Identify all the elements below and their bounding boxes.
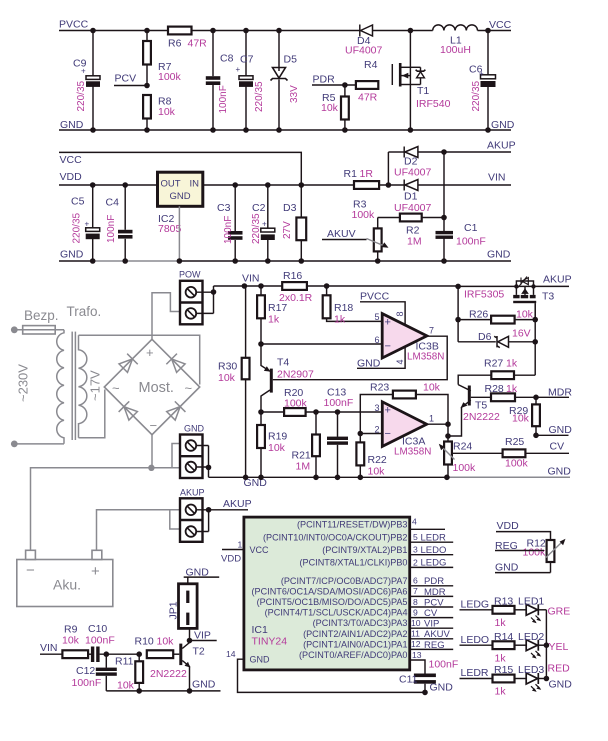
resistor R21 1M — [292, 409, 320, 480]
svg-text:LEDG: LEDG — [421, 558, 447, 569]
svg-text:11: 11 — [411, 629, 420, 639]
svg-text:GND: GND — [170, 191, 191, 202]
svg-text:(PCINT2/AIN1/ADC2)PA2: (PCINT2/AIN1/ADC2)PA2 — [303, 629, 407, 639]
svg-text:VIP: VIP — [424, 619, 439, 630]
svg-text:REG: REG — [424, 640, 445, 651]
svg-text:100k: 100k — [284, 398, 308, 410]
svg-text:C12: C12 — [76, 665, 95, 677]
svg-text:100nF: 100nF — [223, 216, 234, 244]
pin 6 PDR — [410, 585, 454, 587]
svg-text:GND: GND — [250, 655, 271, 665]
node REG label + wire — [495, 540, 544, 552]
svg-text:100k: 100k — [453, 462, 477, 474]
svg-text:CV: CV — [550, 440, 565, 452]
transistor T3 IRF5305 — [464, 277, 554, 320]
svg-text:−: − — [385, 341, 391, 353]
diode D2 UF4007 (cathode left) — [394, 147, 432, 179]
capacitor C1 100nF — [436, 218, 486, 264]
wire bridge plus to POW connector — [152, 293, 181, 340]
capacitor C6 220/35 — [469, 28, 496, 133]
svg-text:1R: 1R — [360, 168, 374, 180]
transistor T1 IRF540 — [392, 28, 450, 133]
svg-text:100nF: 100nF — [456, 236, 486, 248]
resistor R5 10k — [321, 82, 349, 133]
svg-text:7: 7 — [413, 586, 418, 596]
svg-text:5: 5 — [375, 312, 380, 322]
wire L1 to VCC end — [478, 30, 512, 32]
svg-text:MDR: MDR — [424, 587, 446, 598]
svg-text:2N2222: 2N2222 — [463, 411, 500, 423]
svg-text:(PCINT1/AIN0/ADC1)PA1: (PCINT1/AIN0/ADC1)PA1 — [303, 639, 407, 649]
bridge diode lower-left — [119, 401, 139, 421]
resistor R30 10k — [218, 286, 250, 480]
svg-text:1k: 1k — [506, 383, 518, 395]
op-amp IC3B LM358N — [375, 311, 445, 364]
svg-text:LM358N: LM358N — [407, 352, 444, 363]
svg-text:+: + — [146, 345, 154, 360]
svg-text:~230V: ~230V — [16, 364, 31, 402]
IC1 pin names (inside right) — [252, 520, 408, 661]
svg-text:GND: GND — [184, 424, 205, 434]
svg-text:GND: GND — [549, 424, 573, 436]
svg-text:1M: 1M — [296, 461, 311, 473]
svg-text:R19: R19 — [268, 431, 287, 443]
svg-text:MDR: MDR — [548, 387, 572, 399]
svg-text:33V: 33V — [289, 85, 300, 103]
svg-text:−: − — [150, 418, 158, 433]
svg-text:AKUP: AKUP — [180, 488, 205, 498]
svg-text:GND: GND — [192, 679, 216, 691]
trimmer R12 100k — [523, 538, 566, 573]
svg-text:220/35: 220/35 — [471, 80, 482, 111]
svg-text:IC1: IC1 — [252, 624, 269, 636]
capacitor C12 100nF — [72, 654, 117, 691]
svg-text:2N2222: 2N2222 — [150, 668, 187, 680]
svg-text:R1: R1 — [344, 168, 358, 180]
svg-text:Most.: Most. — [139, 380, 174, 396]
svg-text:1: 1 — [429, 414, 434, 424]
resistor R17 1k — [257, 286, 287, 344]
wire D4 to T1 node — [373, 30, 433, 32]
svg-text:LEDR: LEDR — [461, 667, 489, 679]
capacitor C8 100nF — [206, 28, 234, 133]
svg-text:GND: GND — [495, 562, 519, 574]
svg-text:5: 5 — [413, 532, 418, 542]
resistor R10 10k — [135, 636, 180, 659]
diode D1 UF4007 (cathode left) — [394, 180, 432, 215]
wire AKUP-dot vertical to R2/C1 line — [441, 149, 447, 217]
capacitor C2 220/35 — [251, 182, 275, 264]
svg-text:R23: R23 — [370, 382, 389, 394]
pin 9 CV — [410, 617, 454, 619]
svg-text:−: − — [26, 562, 35, 579]
transistor T4 2N2907 — [261, 344, 314, 412]
fuse Bezp. — [14, 308, 64, 334]
svg-text:T2: T2 — [193, 646, 205, 658]
fuse terminal top — [11, 326, 18, 333]
svg-text:10k: 10k — [512, 413, 530, 425]
svg-text:R26: R26 — [469, 309, 488, 321]
zener D6 16V (cathode left) — [458, 303, 538, 375]
svg-text:10k: 10k — [321, 102, 339, 114]
svg-text:+: + — [385, 317, 391, 329]
wire IC3A output pin1 — [427, 423, 448, 425]
svg-text:+: + — [91, 563, 100, 580]
svg-text:Trafo.: Trafo. — [67, 304, 102, 319]
svg-text:UF4007: UF4007 — [345, 45, 383, 57]
pin 8 PCV — [410, 606, 454, 608]
junction gray minus node — [148, 465, 154, 471]
connector AKUP — [180, 488, 252, 542]
wire battery plus to AKUP connector — [97, 510, 181, 551]
svg-text:~17V: ~17V — [88, 370, 103, 401]
svg-text:−: − — [385, 428, 391, 440]
transistor T2 2N2222 — [150, 641, 205, 694]
resistor R16 2x0.1R — [258, 270, 329, 304]
wire IC2 GND stub (gray) — [178, 206, 180, 261]
svg-text:GND: GND — [487, 249, 511, 261]
diode D4 UF4007 (in rail, cathode left) — [345, 25, 383, 57]
wire pin2 line — [360, 433, 382, 435]
svg-text:27V: 27V — [282, 221, 293, 239]
svg-text:10k: 10k — [157, 636, 175, 648]
svg-text:220/35: 220/35 — [251, 213, 262, 244]
svg-text:6: 6 — [413, 576, 418, 586]
svg-text:10k: 10k — [516, 309, 534, 321]
svg-text:~: ~ — [185, 381, 193, 396]
svg-text:10k: 10k — [218, 372, 236, 384]
svg-text:POW: POW — [179, 270, 201, 280]
svg-text:GRE: GRE — [548, 606, 571, 618]
svg-text:R15: R15 — [494, 664, 513, 676]
svg-text:47R: 47R — [188, 38, 208, 50]
pin 2 LEDG — [410, 566, 454, 568]
resistor R22 10k — [356, 431, 387, 480]
resistor R20 100k — [258, 387, 382, 416]
svg-text:(PCINT7/ICP/OC0B/ADC7)PA7: (PCINT7/ICP/OC0B/ADC7)PA7 — [281, 576, 408, 586]
wire VIN line (right of IC2) — [203, 184, 354, 186]
pin 11 AKUV — [410, 638, 454, 640]
svg-text:+: + — [85, 220, 90, 229]
trimmer R24 100k — [439, 424, 476, 480]
svg-text:VDD: VDD — [221, 554, 241, 565]
svg-text:10k: 10k — [117, 680, 135, 692]
svg-text:R18: R18 — [334, 302, 353, 314]
svg-text:R14: R14 — [494, 631, 513, 643]
bridge diode upper-left — [118, 354, 138, 374]
resistor R8 10k — [143, 95, 176, 133]
svg-text:9: 9 — [413, 607, 418, 617]
svg-text:C2: C2 — [252, 202, 266, 214]
resistor R2 1M — [378, 214, 447, 248]
wire pin6 line — [261, 343, 382, 345]
bridge rectifier Most. diamond — [104, 339, 199, 434]
resistor R7 100k — [143, 28, 181, 86]
resistor R19 10k — [257, 412, 287, 480]
svg-text:100nF: 100nF — [85, 635, 115, 647]
wire GND rail left — [59, 260, 93, 262]
svg-text:T1: T1 — [417, 85, 429, 97]
svg-text:VCC: VCC — [250, 545, 270, 555]
svg-text:VIN: VIN — [40, 642, 58, 654]
svg-text:GND: GND — [491, 119, 515, 131]
capacitor C3 100nF — [217, 182, 243, 264]
svg-text:CV: CV — [424, 608, 438, 619]
svg-text:D3: D3 — [283, 202, 297, 214]
svg-text:100nF: 100nF — [429, 659, 459, 671]
svg-text:+: + — [81, 67, 86, 76]
svg-text:TINY24: TINY24 — [252, 636, 288, 648]
node VIN label + wire — [40, 642, 62, 654]
wire VIN to T3 — [458, 285, 569, 287]
transistor T5 2N2222 — [445, 385, 500, 439]
svg-text:LM358N: LM358N — [394, 447, 431, 458]
transformer core — [72, 332, 75, 440]
svg-text:RED: RED — [548, 663, 571, 675]
connector GND — [180, 424, 211, 479]
svg-text:C3: C3 — [217, 202, 231, 214]
wire section3 GND rail — [209, 476, 449, 478]
LED row 2 : LEDO / R14 / LED2 YEL — [460, 631, 569, 665]
svg-text:100nF: 100nF — [72, 677, 102, 689]
resistor R1 1R — [344, 168, 392, 189]
wire bottom GND line — [106, 679, 220, 691]
svg-text:R6: R6 — [168, 38, 182, 50]
svg-text:3: 3 — [413, 545, 418, 555]
capacitor C7 220/35 — [236, 28, 266, 133]
svg-text:D6: D6 — [478, 331, 492, 343]
svg-text:IRF540: IRF540 — [416, 98, 451, 110]
wire battery minus to GND node — [31, 444, 181, 551]
svg-text:D1: D1 — [404, 191, 418, 203]
pin 13 PA0 — [410, 660, 425, 674]
IC1 right pin stubs + numbers + nets — [410, 517, 454, 674]
svg-text:R17: R17 — [268, 302, 287, 314]
wire VCC top line — [59, 152, 301, 185]
wire AKUP line — [388, 151, 404, 153]
svg-text:C5: C5 — [71, 196, 85, 208]
resistor R23 10k (feedback) — [360, 382, 448, 434]
wire GND rail right — [179, 260, 511, 262]
svg-text:1k: 1k — [506, 358, 518, 370]
svg-text:T4: T4 — [277, 357, 289, 369]
node PVCC label + wire to pin 8 — [360, 291, 405, 326]
pin 3 LEDO — [410, 554, 454, 556]
svg-text:GND: GND — [549, 679, 573, 691]
node AKUV label + wire — [322, 228, 367, 240]
svg-text:13: 13 — [412, 650, 422, 660]
svg-text:(PCINT0/AREF/ADC0)PA0: (PCINT0/AREF/ADC0)PA0 — [299, 650, 407, 660]
svg-text:OUT: OUT — [161, 179, 181, 190]
svg-text:LEDR: LEDR — [421, 532, 446, 543]
battery Aku. — [17, 550, 113, 606]
fuse terminal bottom — [11, 441, 18, 448]
svg-text:AKUP: AKUP — [223, 498, 252, 510]
svg-text:(PCINT6/OC1A/SDA/MOSI/ADC6)PA6: (PCINT6/OC1A/SDA/MOSI/ADC6)PA6 — [252, 586, 408, 596]
svg-text:100nF: 100nF — [324, 397, 354, 409]
svg-text:(PCINT8/XTAL1/CLKI)PB0: (PCINT8/XTAL1/CLKI)PB0 — [300, 558, 408, 568]
svg-text:Bezp.: Bezp. — [24, 308, 59, 323]
svg-text:VIN: VIN — [242, 273, 260, 285]
svg-text:PVCC: PVCC — [59, 19, 89, 31]
svg-text:GND: GND — [60, 119, 84, 131]
svg-text:UF4007: UF4007 — [394, 202, 432, 214]
svg-text:+: + — [385, 405, 391, 417]
wire PVCC rail right part — [192, 30, 360, 32]
pin 5 LEDR — [410, 541, 454, 543]
svg-text:100k: 100k — [505, 458, 529, 470]
resistor R6 47R (in PVCC rail) — [168, 27, 207, 50]
svg-text:PDR: PDR — [313, 74, 336, 86]
wire PVCC rail — [59, 30, 168, 32]
node VDD label + wire — [496, 520, 551, 540]
svg-text:LED1: LED1 — [518, 596, 544, 608]
jumper JP1 — [168, 577, 198, 640]
LED row 3 : LEDR / R15 / LED3 RED — [460, 663, 573, 698]
svg-text:(PCINT5/OC1B/MISO/DO/ADC5)PA5: (PCINT5/OC1B/MISO/DO/ADC5)PA5 — [257, 597, 408, 607]
resistor R9 10k — [62, 624, 91, 659]
inductor L1 100uH — [433, 25, 478, 56]
svg-text:R13: R13 — [494, 596, 513, 608]
svg-text:100nF: 100nF — [218, 85, 229, 113]
svg-text:1: 1 — [238, 540, 243, 550]
svg-text:~: ~ — [112, 381, 120, 396]
capacitor C5 220/35 — [71, 182, 100, 264]
svg-text:YEL: YEL — [549, 641, 569, 653]
resistor R28 1k + MDR line — [471, 383, 573, 401]
svg-text:10k: 10k — [158, 106, 176, 118]
wire GND rail — [59, 129, 511, 131]
svg-text:220/35: 220/35 — [254, 81, 265, 112]
svg-text:LED3: LED3 — [518, 664, 544, 676]
bridge diode upper-right — [166, 354, 186, 374]
svg-text:100k: 100k — [352, 209, 376, 221]
svg-text:R30: R30 — [218, 361, 237, 373]
svg-text:1k: 1k — [495, 686, 507, 698]
svg-text:1k: 1k — [334, 314, 346, 326]
svg-text:10: 10 — [411, 618, 421, 628]
svg-text:7: 7 — [429, 326, 434, 336]
IC1 ATtiny24 box — [244, 517, 410, 670]
svg-text:VCC: VCC — [60, 154, 83, 166]
resistor R18 1k — [323, 286, 383, 326]
svg-text:AKUV: AKUV — [327, 228, 356, 240]
svg-text:IN: IN — [190, 179, 200, 190]
svg-text:+: + — [479, 70, 484, 79]
wire bridge minus down — [151, 435, 153, 468]
node VIP label + wire — [187, 630, 217, 644]
svg-text:C4: C4 — [106, 197, 120, 209]
svg-text:+: + — [236, 65, 241, 74]
svg-text:(PCINT11/RESET/DW)PB3: (PCINT11/RESET/DW)PB3 — [297, 520, 408, 530]
svg-text:T5: T5 — [475, 400, 487, 412]
svg-text:VIN: VIN — [488, 172, 506, 184]
connector POW — [179, 270, 244, 325]
svg-text:2N2907: 2N2907 — [277, 369, 314, 381]
svg-text:100uH: 100uH — [440, 44, 471, 56]
node GND label + wire to pin 4 — [357, 347, 405, 370]
svg-text:(PCINT3/T0/ADC3)PA3: (PCINT3/T0/ADC3)PA3 — [313, 618, 408, 628]
svg-text:GND: GND — [60, 249, 84, 261]
svg-text:LEDG: LEDG — [461, 599, 490, 611]
wire LED cathode bus — [545, 610, 547, 679]
svg-text:7805: 7805 — [158, 223, 182, 235]
pin 10 VIP — [410, 627, 454, 629]
svg-text:10k: 10k — [268, 442, 286, 454]
bridge diode lower-right — [166, 401, 186, 421]
svg-text:10k: 10k — [62, 635, 80, 647]
wire secondary top to bridge right vertex — [79, 335, 200, 384]
svg-text:VDD: VDD — [60, 171, 83, 183]
capacitor C11 100nF — [399, 659, 458, 696]
svg-text:D5: D5 — [284, 54, 298, 66]
resistor R11 10k — [115, 651, 143, 693]
svg-text:PCV: PCV — [424, 597, 444, 608]
svg-text:100k: 100k — [158, 71, 182, 83]
svg-text:8: 8 — [395, 311, 405, 316]
resistor R27 1k — [458, 358, 535, 385]
svg-text:VCC: VCC — [489, 19, 512, 31]
svg-text:GND: GND — [430, 682, 454, 694]
svg-text:PCV: PCV — [115, 73, 137, 85]
transformer primary winding — [14, 330, 64, 444]
svg-text:R16: R16 — [283, 270, 302, 282]
IC2 7805 regulator box — [158, 172, 203, 235]
svg-text:LEDO: LEDO — [421, 545, 447, 556]
svg-text:4: 4 — [395, 359, 405, 364]
wire VIN line — [244, 285, 458, 287]
svg-text:GND: GND — [548, 465, 572, 477]
svg-text:(PCINT10/INT0/OC0A/CKOUT)PB2: (PCINT10/INT0/OC0A/CKOUT)PB2 — [263, 532, 408, 542]
wire R29 GND stub — [533, 424, 572, 438]
zener D3 27V (box style) — [282, 182, 306, 264]
capacitor C4 100nF — [106, 182, 133, 264]
svg-text:C10: C10 — [88, 623, 107, 635]
svg-text:PDR: PDR — [424, 576, 444, 587]
wire GND rail gray segment — [93, 260, 180, 262]
svg-text:3: 3 — [375, 403, 380, 413]
svg-text:10k: 10k — [423, 382, 441, 394]
svg-text:AKUP: AKUP — [543, 274, 572, 286]
svg-text:(PCINT4/T1/SCL/USCK/ADC4)PA4: (PCINT4/T1/SCL/USCK/ADC4)PA4 — [265, 608, 408, 618]
svg-text:C7: C7 — [240, 54, 254, 66]
svg-text:JP1: JP1 — [168, 601, 180, 619]
svg-text:VDD: VDD — [497, 520, 520, 532]
resistor R4 47R — [356, 59, 378, 104]
svg-text:Aku.: Aku. — [53, 577, 81, 593]
svg-text:AKUP: AKUP — [487, 140, 516, 152]
svg-text:R10: R10 — [135, 636, 154, 648]
resistor R25 100k + CV line — [453, 436, 569, 470]
svg-text:R28: R28 — [485, 383, 504, 395]
svg-text:10k: 10k — [368, 466, 386, 478]
node PCV label + stub — [114, 73, 150, 89]
svg-text:2: 2 — [413, 557, 418, 567]
svg-text:R22: R22 — [368, 454, 387, 466]
svg-text:16V: 16V — [512, 328, 531, 340]
op-amp IC3A LM358N — [375, 402, 435, 458]
svg-text:PVCC: PVCC — [360, 291, 390, 303]
transformer secondary winding — [79, 335, 87, 438]
wire secondary bottom to bridge left vertex — [79, 390, 105, 438]
svg-text:LED2: LED2 — [518, 631, 544, 643]
svg-text:R25: R25 — [505, 436, 524, 448]
trimmer R3 100k — [352, 199, 389, 264]
svg-text:C11: C11 — [399, 674, 418, 686]
pin 12 REG — [410, 648, 454, 650]
wire VDD line — [59, 184, 158, 186]
capacitor C13 100nF — [324, 387, 354, 481]
